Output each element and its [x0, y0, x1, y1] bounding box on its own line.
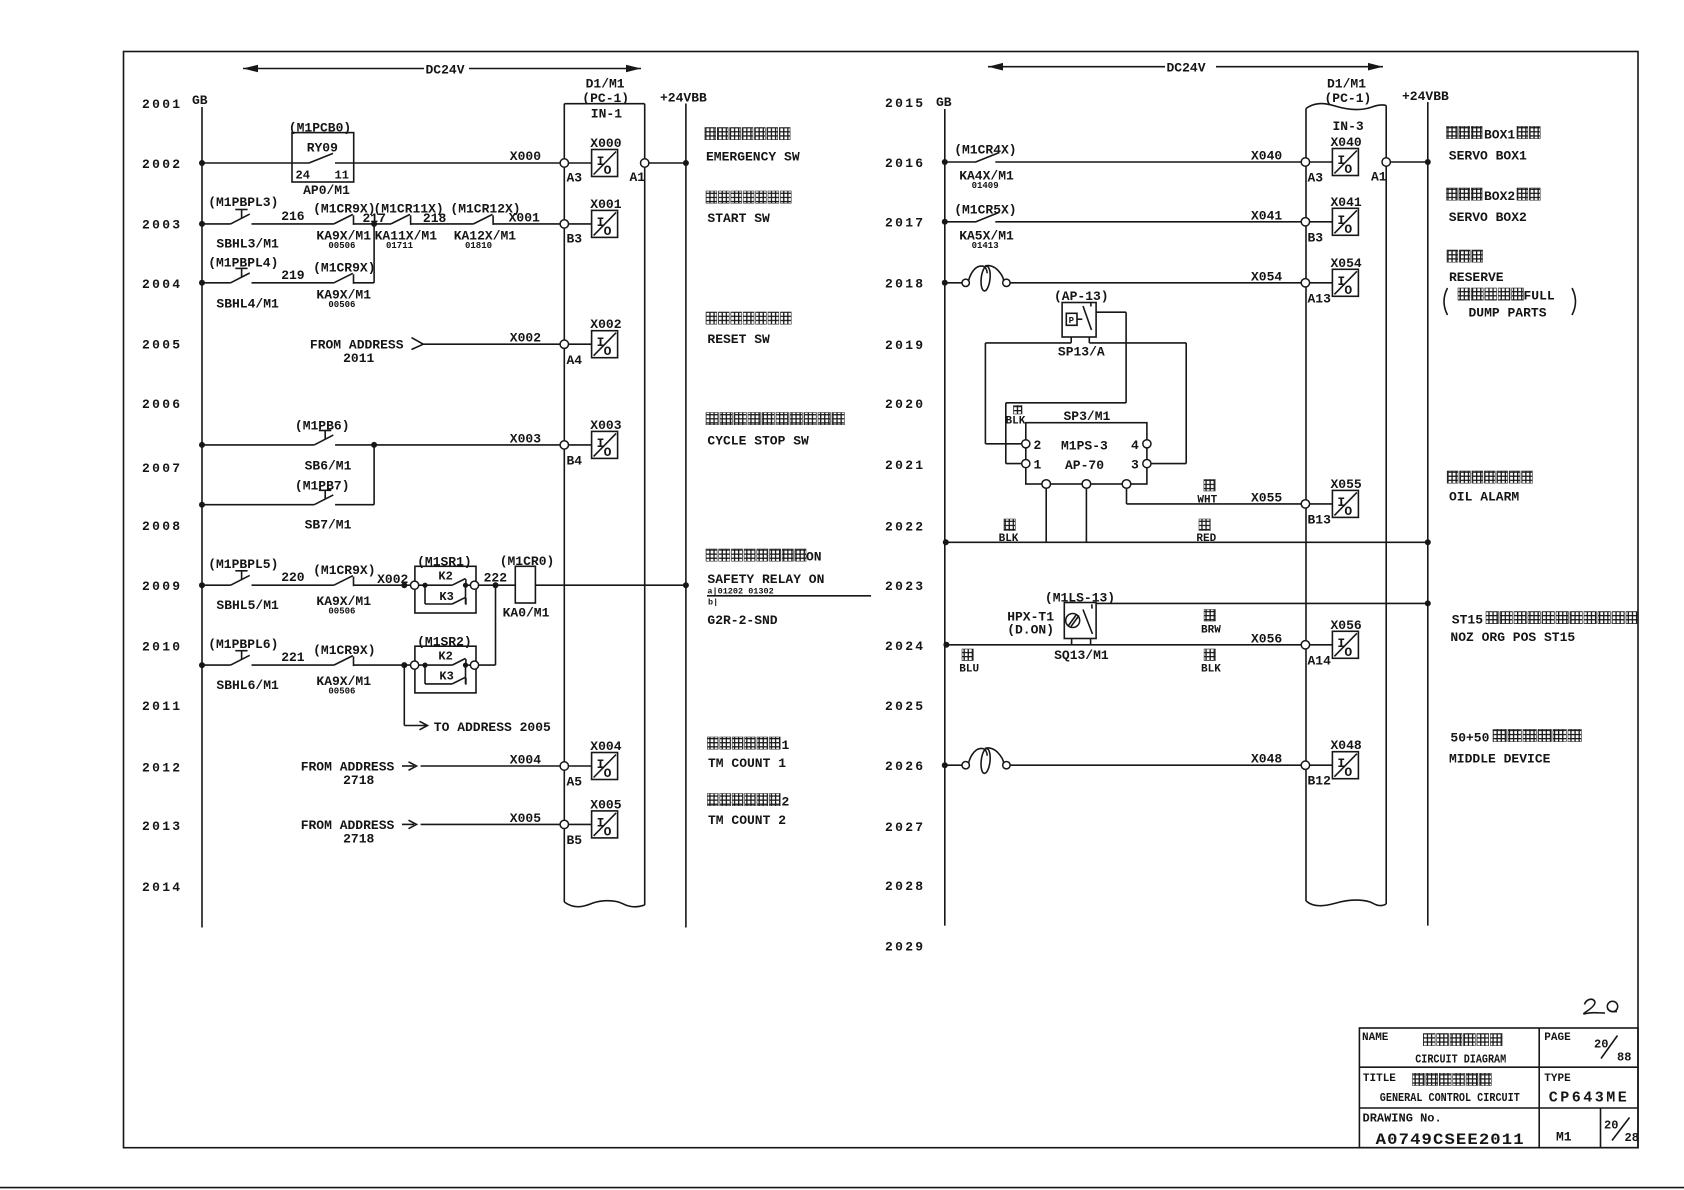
svg-text:CP643ME: CP643ME	[1549, 1090, 1630, 1107]
wire rung 2026 left	[942, 762, 948, 768]
svg-text:X040: X040	[1251, 149, 1282, 164]
svg-text:X004: X004	[510, 753, 541, 768]
wire rung 2009 left	[199, 582, 205, 588]
wire rung cycle-stop lower branch	[199, 502, 205, 508]
svg-text:X000: X000	[590, 136, 621, 151]
input point X055	[1310, 503, 1333, 505]
wire rung 2016 to +24VBB	[1390, 161, 1427, 163]
terminal B4	[560, 441, 568, 449]
svg-text:(M1CR9X): (M1CR9X)	[313, 643, 375, 658]
svg-text:2012: 2012	[142, 761, 182, 776]
svg-text:D1/M1: D1/M1	[1327, 77, 1366, 92]
wire rung X003 to module	[374, 444, 560, 446]
svg-text:BOX2: BOX2	[1484, 189, 1515, 204]
label reset sw	[706, 312, 717, 324]
svg-text:00506: 00506	[328, 607, 355, 617]
input point X005	[569, 823, 592, 825]
svg-text:01413: 01413	[972, 241, 999, 251]
svg-text:EMERGENCY SW: EMERGENCY SW	[706, 150, 800, 165]
PLC input module IN-3	[1305, 109, 1307, 902]
svg-text:DUMP PARTS: DUMP PARTS	[1469, 306, 1547, 321]
svg-text:00506: 00506	[328, 241, 355, 251]
terminal A13	[1301, 279, 1309, 287]
svg-text:X048: X048	[1331, 738, 1362, 753]
svg-text:X056: X056	[1331, 618, 1362, 633]
svg-text:4: 4	[1131, 438, 1139, 453]
wire AP-13 right stub to M1PS-3 pin3	[1088, 337, 1090, 343]
svg-text:SBHL3/M1: SBHL3/M1	[216, 237, 279, 252]
svg-text:2020: 2020	[885, 397, 925, 412]
svg-text:BLU: BLU	[959, 664, 979, 676]
relay RY09 (M1PCB0)	[292, 133, 354, 182]
wire rung 2013	[421, 823, 560, 825]
svg-text:X003: X003	[590, 418, 621, 433]
wire down to to-address arrow	[403, 665, 405, 725]
svg-text:DC24V: DC24V	[1167, 61, 1206, 76]
svg-text:2017: 2017	[885, 216, 925, 231]
svg-text:1: 1	[1034, 458, 1042, 473]
label servo box2	[1447, 188, 1458, 200]
svg-text:X054: X054	[1251, 269, 1282, 284]
svg-text:X040: X040	[1331, 135, 1362, 150]
svg-text:X005: X005	[590, 797, 621, 812]
svg-text:3: 3	[1131, 458, 1139, 473]
label start sw	[706, 191, 717, 203]
svg-text:(M1PCB0): (M1PCB0)	[289, 121, 351, 136]
svg-text:AP-70: AP-70	[1065, 458, 1104, 473]
svg-text:D1/M1: D1/M1	[586, 77, 625, 92]
wire rung 2026 to module	[1010, 764, 1302, 766]
svg-text:X055: X055	[1251, 490, 1282, 505]
input point X040	[1310, 161, 1333, 163]
svg-text:X001: X001	[590, 197, 621, 212]
wire rung 2003 to module	[493, 223, 560, 225]
terminal B5	[560, 820, 568, 828]
wire 216	[252, 223, 334, 225]
svg-text:RESERVE: RESERVE	[1449, 270, 1504, 285]
left +24VBB bus	[685, 104, 687, 928]
wire rung 2003 left	[199, 221, 205, 227]
title block	[1359, 1028, 1638, 1148]
svg-text:A4: A4	[567, 353, 583, 368]
svg-text:88: 88	[1617, 1051, 1631, 1065]
svg-text:A5: A5	[567, 775, 583, 790]
svg-text:2028: 2028	[885, 879, 925, 894]
wire 222	[479, 584, 516, 586]
wire rung 2024	[943, 642, 949, 648]
svg-text:218: 218	[423, 211, 447, 226]
svg-text:SBHL4/M1: SBHL4/M1	[216, 297, 279, 312]
wire rung 2009 to +24VBB	[535, 584, 686, 586]
svg-text:(M1CR9X): (M1CR9X)	[313, 563, 375, 578]
svg-text:A1: A1	[630, 170, 646, 185]
right GB bus	[944, 109, 946, 926]
svg-text:(M1SR2): (M1SR2)	[417, 635, 472, 650]
terminal B3	[560, 220, 568, 228]
svg-text:BLK: BLK	[1201, 664, 1221, 676]
label servo box1	[1447, 126, 1458, 138]
PLC input module IN-1	[563, 104, 565, 902]
svg-text:2004: 2004	[142, 277, 182, 292]
svg-text:B3: B3	[567, 232, 583, 247]
svg-text:2013: 2013	[142, 819, 182, 834]
terminal A1 right	[1382, 158, 1390, 166]
svg-text:RED: RED	[1196, 533, 1216, 545]
input point X054	[1310, 282, 1333, 284]
label reserve dump parts	[1447, 250, 1458, 262]
handwritten page mark 20	[1584, 999, 1605, 1014]
svg-text:(M1CR9X): (M1CR9X)	[313, 261, 375, 276]
svg-text:SBHL6/M1: SBHL6/M1	[216, 678, 279, 693]
svg-text:2016: 2016	[885, 156, 925, 171]
svg-text:(M1PBPL3): (M1PBPL3)	[208, 195, 278, 210]
wire 221	[252, 664, 334, 666]
svg-text:GB: GB	[192, 93, 208, 108]
svg-text:B5: B5	[567, 833, 583, 848]
svg-text:2029: 2029	[885, 940, 925, 955]
terminal A3	[560, 159, 568, 167]
svg-text:1: 1	[782, 738, 790, 753]
input point X002	[569, 343, 592, 345]
svg-text:PAGE: PAGE	[1544, 1032, 1571, 1044]
svg-text:CIRCUIT DIAGRAM: CIRCUIT DIAGRAM	[1415, 1053, 1506, 1067]
wire 219	[252, 282, 334, 284]
wire rung 2002 to +24VBB	[649, 162, 686, 164]
svg-text:(PC-1): (PC-1)	[582, 91, 629, 106]
wire rung 2012	[421, 765, 560, 767]
wire rung 2018 left	[942, 280, 948, 286]
svg-text:(M1CR4X): (M1CR4X)	[954, 143, 1016, 158]
svg-text:SERVO BOX1: SERVO BOX1	[1449, 149, 1527, 164]
svg-text:220: 220	[281, 570, 305, 585]
input point X048	[1310, 764, 1333, 766]
svg-text:2008: 2008	[142, 519, 182, 534]
reserve loop rung 2018	[962, 266, 1010, 292]
svg-text:TM COUNT 2: TM COUNT 2	[708, 813, 786, 828]
svg-text:P: P	[1069, 316, 1075, 326]
wire to M1SR2	[354, 664, 415, 666]
reserve loop rung 2026	[962, 748, 1010, 774]
wire rung 2017 left	[942, 219, 948, 225]
svg-text:X004: X004	[590, 739, 621, 754]
svg-text:NAME: NAME	[1362, 1032, 1389, 1044]
svg-text:MIDDLE DEVICE: MIDDLE DEVICE	[1449, 752, 1551, 767]
svg-text:2019: 2019	[885, 338, 925, 353]
svg-text:X002: X002	[590, 317, 621, 332]
wire rung 2004 left	[199, 280, 205, 286]
wire AP-13 NC terminal to M1PS-3 pin1	[1096, 311, 1126, 313]
svg-text:TYPE: TYPE	[1544, 1073, 1571, 1085]
svg-text:2023: 2023	[885, 579, 925, 594]
svg-text:BLK: BLK	[1006, 416, 1026, 428]
svg-text:X056: X056	[1251, 631, 1282, 646]
svg-text:SP3/M1: SP3/M1	[1064, 409, 1111, 424]
wire branch join	[335, 504, 374, 506]
svg-text:01409: 01409	[972, 181, 999, 191]
svg-text:SERVO BOX2: SERVO BOX2	[1449, 210, 1527, 225]
wire rung 2018 to module	[1010, 282, 1302, 284]
svg-text:2011: 2011	[142, 699, 182, 714]
input point X003	[569, 444, 592, 446]
terminal A3 right	[1301, 158, 1309, 166]
wire rung 2004 to junction 217	[354, 282, 375, 284]
svg-text:CYCLE STOP SW: CYCLE STOP SW	[707, 433, 809, 448]
svg-text:01711: 01711	[386, 241, 414, 251]
wire rung 2017 to module	[995, 221, 1302, 223]
svg-text:2024: 2024	[885, 639, 925, 654]
terminal B3 right	[1301, 218, 1309, 226]
terminal A1	[641, 159, 649, 167]
terminal B13	[1301, 500, 1309, 508]
svg-text:START SW: START SW	[707, 211, 770, 226]
svg-text:(M1PBPL6): (M1PBPL6)	[208, 637, 278, 652]
svg-text:KA0/M1: KA0/M1	[503, 606, 550, 621]
label tm count 1	[707, 737, 718, 749]
svg-text:(PC-1): (PC-1)	[1325, 91, 1372, 106]
svg-text:RY09: RY09	[307, 141, 338, 156]
svg-text:+24VBB: +24VBB	[660, 91, 707, 106]
svg-text:24: 24	[296, 169, 310, 183]
svg-text:2007: 2007	[142, 461, 182, 476]
DC24V span arrow left	[243, 68, 424, 70]
svg-text:28: 28	[1625, 1131, 1639, 1145]
wire rung 2002 to module	[354, 162, 560, 164]
terminal A4	[560, 340, 568, 348]
svg-text:2011: 2011	[343, 351, 374, 366]
svg-text:2014: 2014	[142, 880, 182, 895]
svg-text:NOZ ORG POS ST15: NOZ ORG POS ST15	[1450, 630, 1575, 645]
svg-text:2026: 2026	[885, 759, 925, 774]
wire X002 node	[354, 584, 415, 586]
svg-text:X041: X041	[1251, 208, 1282, 223]
wire limit switch to +24VBB	[1096, 602, 1428, 604]
svg-text:20: 20	[1604, 1119, 1618, 1133]
svg-text:221: 221	[281, 650, 305, 665]
svg-text:A1: A1	[1371, 170, 1387, 185]
svg-text:2027: 2027	[885, 820, 925, 835]
svg-text:GENERAL CONTROL CIRCUIT: GENERAL CONTROL CIRCUIT	[1380, 1091, 1520, 1105]
svg-text:2025: 2025	[885, 699, 925, 714]
input point X004	[569, 765, 592, 767]
svg-text:b|: b|	[708, 598, 718, 608]
svg-text:(M1CR5X): (M1CR5X)	[954, 202, 1016, 217]
svg-text:SP13/A: SP13/A	[1058, 345, 1105, 360]
label oil alarm	[1447, 471, 1458, 483]
svg-text:A14: A14	[1308, 653, 1332, 668]
svg-text:2718: 2718	[343, 832, 374, 847]
scanner edge line bottom	[0, 1187, 1684, 1189]
svg-text:2022: 2022	[885, 520, 925, 535]
input point X001	[569, 223, 592, 225]
svg-text:50+50: 50+50	[1450, 731, 1489, 746]
svg-text:SQ13/M1: SQ13/M1	[1054, 648, 1109, 663]
terminal B12	[1301, 761, 1309, 769]
svg-text:X054: X054	[1331, 256, 1362, 271]
svg-text:OIL ALARM: OIL ALARM	[1449, 490, 1519, 505]
svg-text:X048: X048	[1251, 752, 1282, 767]
svg-text:TO ADDRESS 2005: TO ADDRESS 2005	[434, 720, 551, 735]
svg-text:TITLE: TITLE	[1363, 1073, 1396, 1085]
svg-text:216: 216	[281, 209, 305, 224]
svg-text:DC24V: DC24V	[426, 63, 465, 78]
svg-text:IN-3: IN-3	[1333, 119, 1364, 134]
wire rung 2016 left	[942, 159, 948, 165]
svg-text:+24VBB: +24VBB	[1402, 89, 1449, 104]
svg-text:ON: ON	[806, 550, 822, 565]
svg-text:TM COUNT 1: TM COUNT 1	[708, 756, 786, 771]
svg-text:BLK: BLK	[999, 533, 1019, 545]
svg-text:A0749CSEE2011: A0749CSEE2011	[1376, 1131, 1525, 1149]
svg-text:00506: 00506	[328, 687, 355, 697]
svg-text:01810: 01810	[465, 241, 492, 251]
terminal A5	[560, 762, 568, 770]
svg-text:B12: B12	[1308, 774, 1332, 789]
svg-text:M1: M1	[1556, 1130, 1572, 1145]
wire rung 2002 left	[199, 160, 205, 166]
svg-text:A3: A3	[567, 171, 583, 186]
svg-text:219: 219	[281, 268, 305, 283]
svg-text:2: 2	[1034, 438, 1042, 453]
svg-text:SAFETY RELAY ON: SAFETY RELAY ON	[707, 572, 824, 587]
svg-text:X002: X002	[510, 331, 541, 346]
svg-text:(M1PBPL5): (M1PBPL5)	[208, 557, 278, 572]
svg-text:A13: A13	[1308, 291, 1332, 306]
label cycle stop sw	[706, 413, 718, 425]
wire M1SR2 output up to node 222	[479, 664, 496, 666]
input point X056	[1310, 644, 1333, 646]
svg-text:SBHL5/M1: SBHL5/M1	[216, 598, 279, 613]
svg-text:2718: 2718	[343, 773, 374, 788]
svg-text:FULL: FULL	[1524, 289, 1555, 304]
svg-text:X003: X003	[510, 431, 541, 446]
label safety relay on	[706, 549, 717, 561]
svg-text:(M1SR1): (M1SR1)	[417, 555, 472, 570]
svg-text:2015: 2015	[885, 96, 925, 111]
wire AP-13 left pin to M1PS-3 pin2	[1070, 337, 1072, 343]
svg-text:WHT: WHT	[1197, 495, 1217, 507]
svg-text:2018: 2018	[885, 277, 925, 292]
svg-text:(M1PB7): (M1PB7)	[295, 479, 350, 494]
svg-text:11: 11	[335, 169, 349, 183]
svg-text:(D.ON): (D.ON)	[1007, 623, 1054, 638]
svg-text:2003: 2003	[142, 218, 182, 233]
svg-text:2002: 2002	[142, 157, 182, 172]
svg-text:RESET SW: RESET SW	[707, 332, 770, 347]
svg-text:2021: 2021	[885, 458, 925, 473]
svg-text:2006: 2006	[142, 397, 182, 412]
right +24VBB bus	[1427, 102, 1429, 926]
wire to node	[335, 444, 374, 446]
svg-text:2009: 2009	[142, 579, 182, 594]
wire 218	[411, 223, 474, 225]
svg-text:00506: 00506	[328, 300, 355, 310]
input point X000	[569, 162, 592, 164]
label tm count 2	[707, 794, 718, 806]
wire rung 2005	[423, 343, 560, 345]
svg-text:X041: X041	[1331, 195, 1362, 210]
svg-text:SB6/M1: SB6/M1	[305, 459, 352, 474]
DC24V span arrow right	[988, 66, 1165, 68]
svg-text:G2R-2-SND: G2R-2-SND	[707, 613, 777, 628]
svg-text:2005: 2005	[142, 338, 182, 353]
svg-text:M1PS-3: M1PS-3	[1061, 438, 1108, 453]
left GB bus	[201, 107, 203, 928]
label emergency sw	[705, 128, 716, 140]
input point X041	[1310, 221, 1333, 223]
wire rung 2010 left	[199, 662, 205, 668]
svg-text:2001: 2001	[142, 97, 182, 112]
svg-text:B3: B3	[1308, 230, 1324, 245]
svg-text:A3: A3	[1308, 171, 1324, 186]
wire M1PS-3 black/red leads bus	[1045, 488, 1047, 542]
svg-text:BOX1: BOX1	[1484, 128, 1515, 143]
svg-text:2010: 2010	[142, 640, 182, 655]
svg-text:2: 2	[782, 795, 790, 810]
wire M1PS-3 white lead to X055	[1126, 488, 1128, 504]
node 217 junction	[371, 221, 377, 227]
wire rung 2016 to module	[995, 161, 1302, 163]
svg-text:B13: B13	[1308, 512, 1332, 527]
svg-text:AP0/M1: AP0/M1	[303, 183, 350, 198]
svg-text:X055: X055	[1331, 477, 1362, 492]
svg-text:GB: GB	[936, 95, 952, 110]
svg-text:X000: X000	[510, 149, 541, 164]
svg-text:IN-1: IN-1	[591, 107, 622, 122]
svg-text:B4: B4	[567, 454, 583, 469]
svg-text:X001: X001	[509, 210, 540, 225]
wire rung cycle-stop upper	[199, 442, 205, 448]
svg-text:X005: X005	[510, 811, 541, 826]
svg-text:20: 20	[1594, 1038, 1608, 1052]
wire 220	[252, 584, 334, 586]
svg-text:SB7/M1: SB7/M1	[305, 518, 352, 533]
to-address arrow 2005	[404, 725, 426, 727]
svg-text:DRAWING No.: DRAWING No.	[1363, 1112, 1442, 1126]
svg-text:BRW: BRW	[1201, 624, 1221, 636]
wire 217	[354, 223, 392, 225]
svg-text:ST15: ST15	[1452, 613, 1483, 628]
terminal A14	[1301, 641, 1309, 649]
